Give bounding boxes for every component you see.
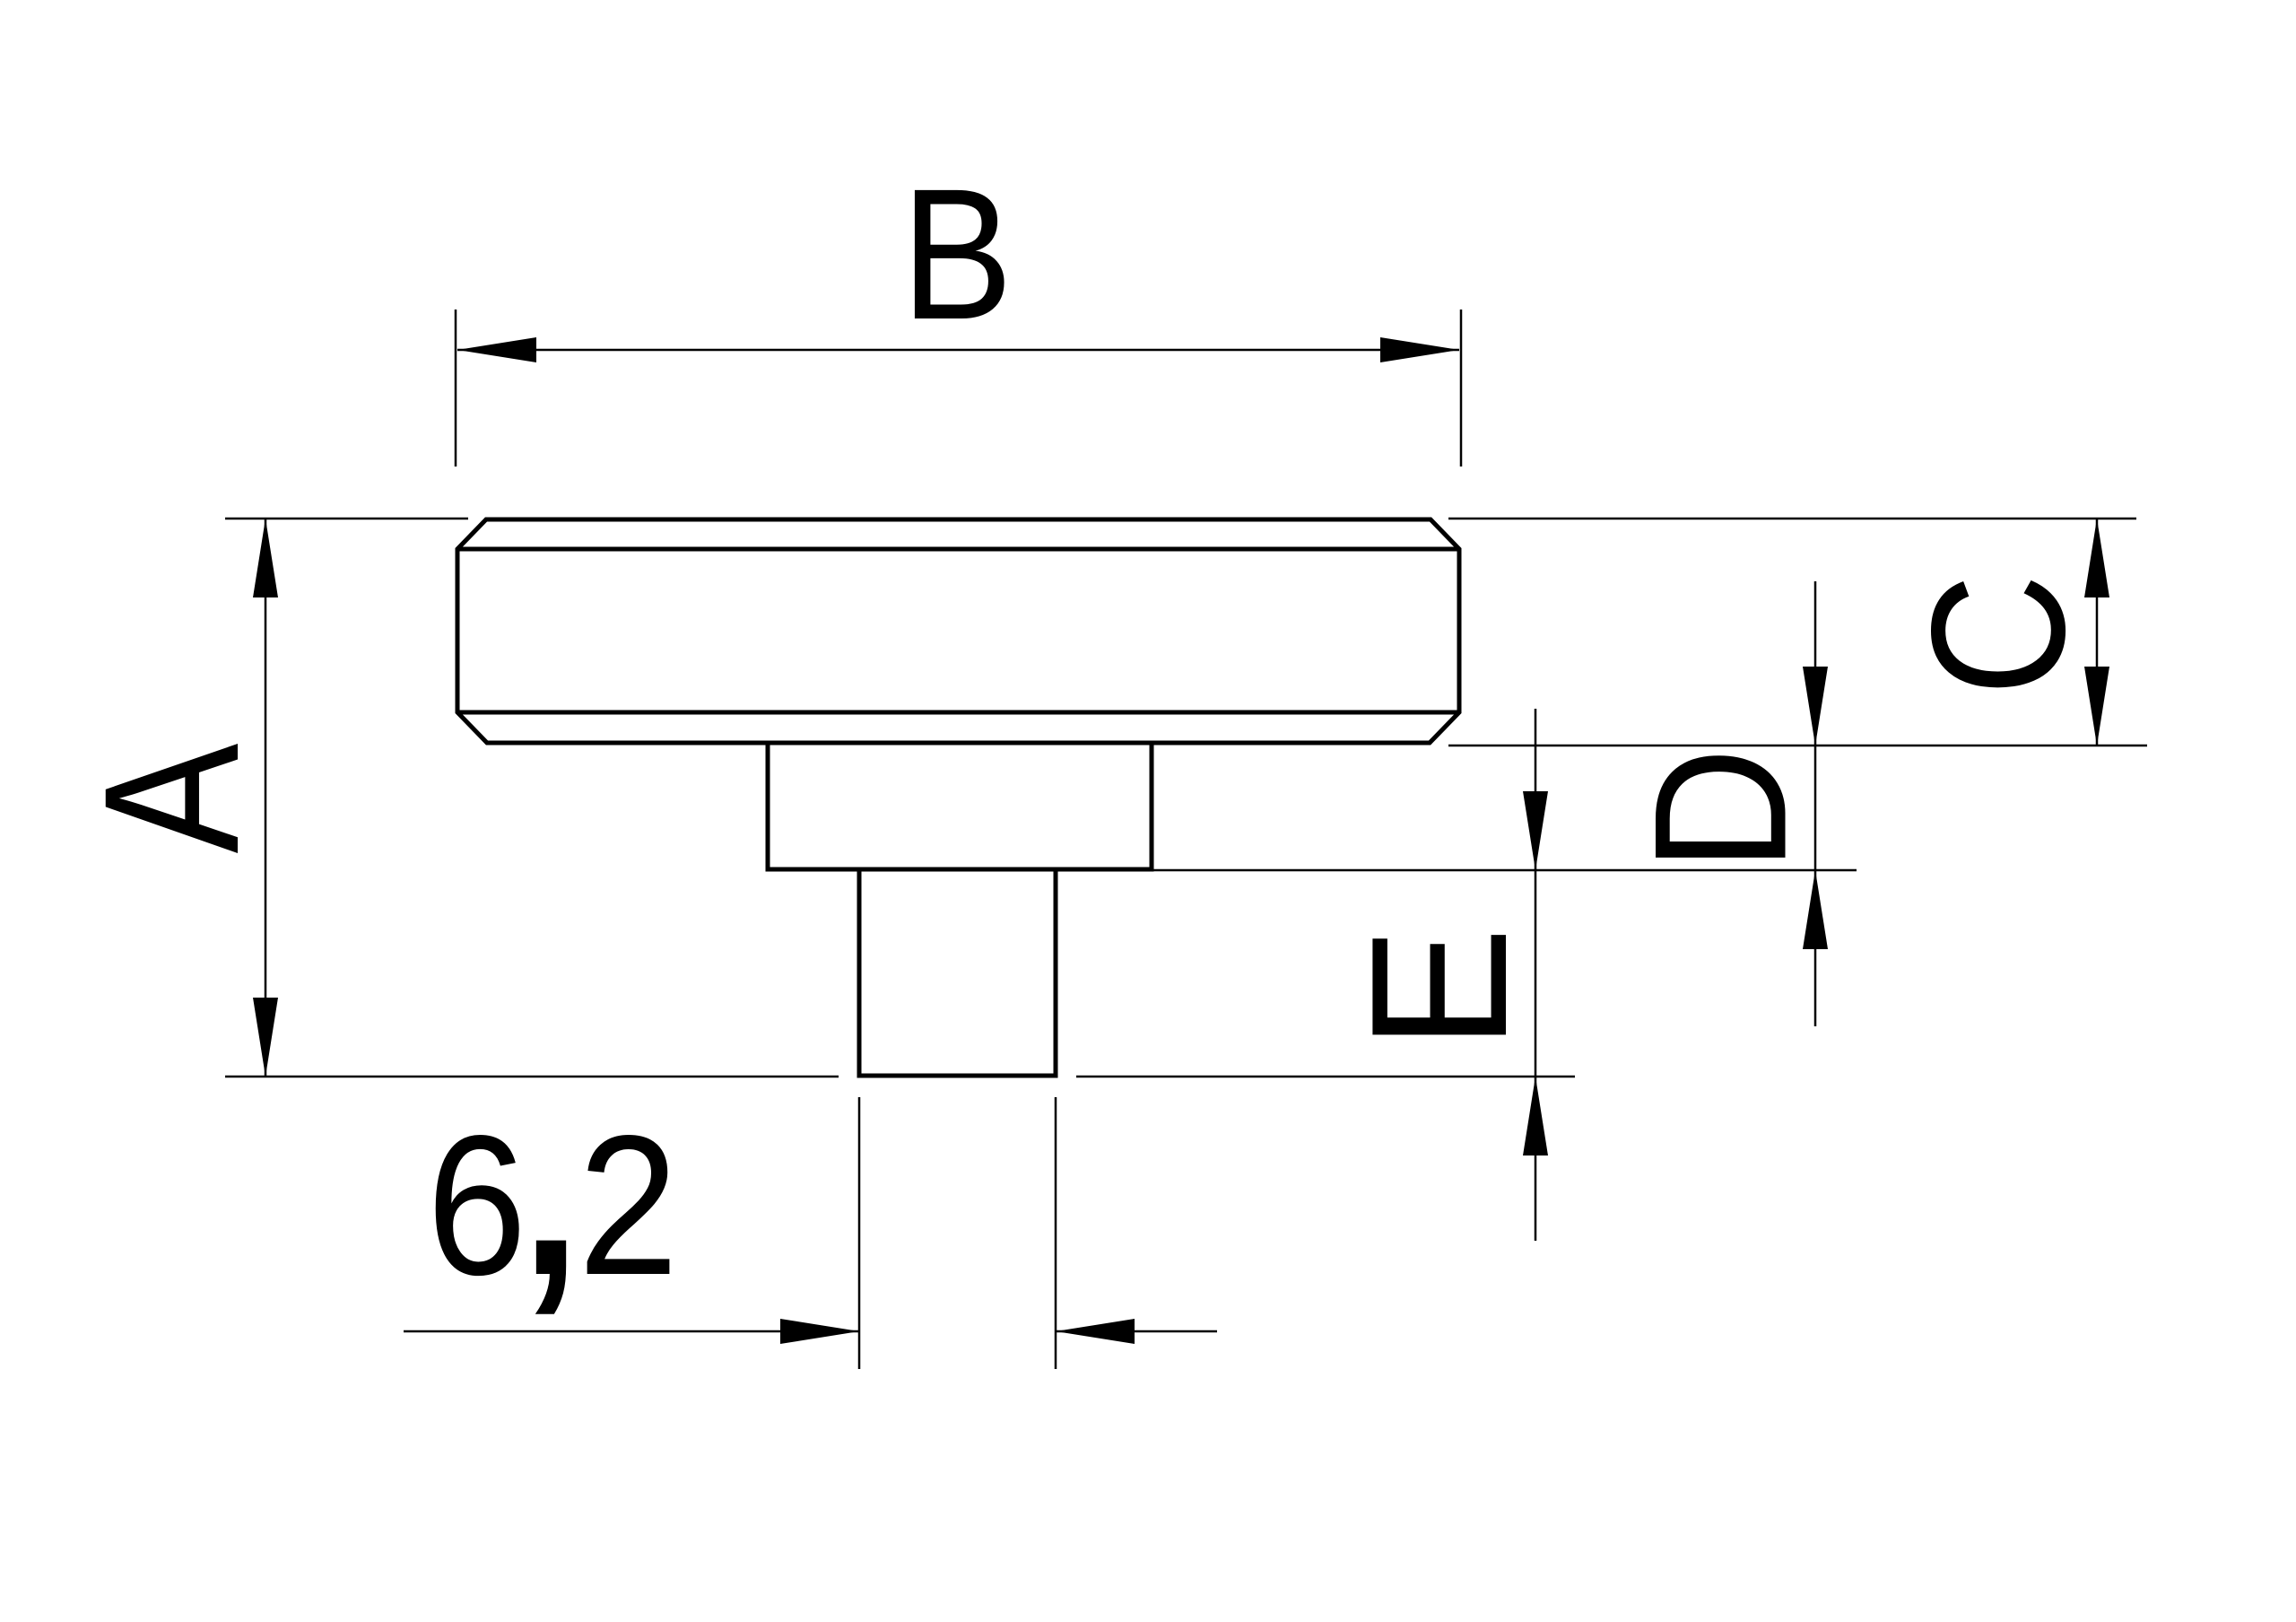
svg-text:D: D: [1615, 747, 1826, 872]
svg-text:B: B: [901, 150, 1013, 358]
svg-text:2: 2: [578, 1094, 679, 1316]
svg-text:A: A: [65, 744, 279, 854]
svg-text:E: E: [1330, 927, 1547, 1050]
svg-text:C: C: [1892, 574, 2105, 696]
